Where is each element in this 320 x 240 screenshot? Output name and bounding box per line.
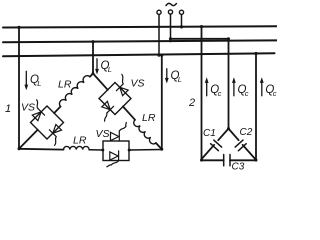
wire T1 lead: [158, 15, 160, 56]
node capacitor delta apex: [227, 127, 230, 130]
arrow QL2: [95, 59, 99, 75]
svg-text:VS: VS: [131, 78, 145, 90]
wire delta right diagonal mid: [123, 107, 135, 120]
wire T3 lead: [181, 15, 183, 28]
wire capacitor phase 2 drop: [228, 39, 230, 129]
valve VS3 box: [103, 141, 129, 161]
terminal T2: [168, 10, 172, 14]
thyristor VS2a: [116, 74, 128, 95]
terminal T1: [157, 10, 161, 14]
arrow QL1: [24, 71, 28, 90]
wire to VS3: [89, 149, 103, 151]
wire delta right diagonal top: [93, 74, 108, 90]
wire cap delta left diagonal upper: [218, 129, 228, 141]
node cap bottom-right: [255, 159, 258, 162]
source tilde: [166, 3, 176, 5]
wire cap delta right diagonal upper: [229, 129, 239, 141]
terminal T3: [179, 10, 183, 14]
thyristor VS3b: [107, 151, 119, 167]
thyristor VS1a: [32, 100, 44, 121]
svg-text:L: L: [108, 65, 112, 74]
svg-text:c: c: [273, 89, 277, 98]
inductor LR1: [59, 76, 90, 107]
wire cap delta right diagonal lower: [243, 145, 256, 159]
bus C (bottom phase line): [3, 53, 275, 56]
capacitor C1: [211, 140, 222, 151]
node VS3 right: [128, 149, 131, 152]
valve VS2 box: [99, 83, 131, 115]
wire TCR phase 2 drop: [92, 42, 94, 74]
bus B (middle phase line): [3, 40, 277, 42]
wire delta left diagonal lower: [19, 130, 38, 149]
node jog corner: [227, 37, 230, 40]
wire delta bottom left: [19, 148, 64, 151]
node delta right vertex: [160, 148, 163, 151]
wire delta left diagonal top: [90, 74, 93, 77]
svg-text:L: L: [178, 75, 182, 84]
node T3-busA: [180, 25, 183, 28]
capacitor C3: [224, 155, 230, 166]
node VS3 left: [101, 149, 104, 152]
svg-text:C3: C3: [232, 162, 245, 173]
svg-text:1: 1: [5, 103, 11, 115]
svg-text:c: c: [245, 89, 249, 98]
svg-text:VS: VS: [21, 102, 35, 114]
node T1-busC: [157, 54, 160, 57]
capacitor C2: [235, 140, 246, 151]
node delta left vertex: [18, 147, 21, 150]
thyristor VS1b: [49, 125, 61, 146]
svg-text:C1: C1: [203, 128, 216, 139]
svg-text:LR: LR: [73, 135, 87, 147]
node phase2-busB: [91, 40, 94, 43]
valve VS1 box: [31, 106, 64, 139]
wire capacitor phase 1 drop: [201, 27, 203, 161]
wire cap delta bottom right: [230, 159, 256, 161]
svg-text:LR: LR: [58, 79, 72, 91]
wire delta right diagonal bottom: [156, 143, 162, 149]
node delta apex: [92, 72, 95, 75]
node phase3-busC: [160, 54, 163, 57]
node phase1-busA: [17, 26, 20, 29]
inductor LR2: [134, 120, 156, 144]
wire delta left diagonal mid: [54, 107, 60, 114]
svg-text:L: L: [37, 79, 41, 88]
arrow QC2: [232, 77, 236, 96]
wire TCR phase 1 drop: [18, 28, 20, 149]
wire cap delta bottom left: [202, 159, 224, 161]
bus A (top phase line): [3, 26, 277, 27]
node T2-jog: [169, 37, 172, 40]
thyristor VS2b: [102, 101, 114, 121]
svg-text:C2: C2: [240, 127, 253, 138]
arrow QC3: [260, 77, 264, 96]
node capphase3-busC: [254, 52, 257, 55]
wire jog (middle phase tap to capacitor leg): [171, 38, 229, 40]
wire capacitor phase 3 drop: [255, 54, 257, 161]
arrow QC1: [205, 77, 209, 96]
arrow QL3: [165, 69, 169, 84]
wire TCR phase 3 drop: [161, 55, 163, 149]
thyristor VS3a: [111, 122, 127, 141]
node capphase1-busA: [200, 25, 203, 28]
svg-text:LR: LR: [142, 112, 156, 124]
svg-text:2: 2: [188, 97, 195, 109]
wire cap delta left diagonal lower: [202, 145, 215, 159]
inductor LR3: [64, 146, 90, 149]
wire T2 lead: [170, 14, 172, 41]
svg-text:c: c: [218, 89, 222, 98]
wire VS3 to right vertex: [129, 149, 162, 152]
node cap bottom-left: [200, 159, 203, 162]
svg-text:VS: VS: [96, 128, 110, 140]
